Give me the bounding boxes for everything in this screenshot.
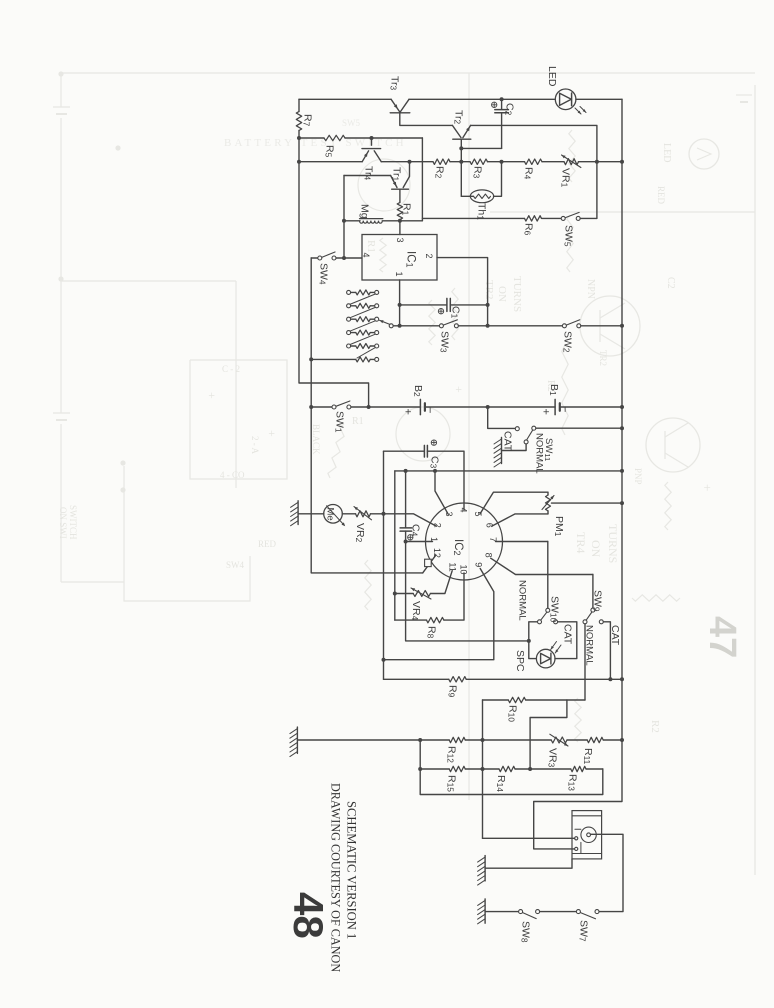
resistor ladder 4	[356, 330, 370, 335]
wire main row seg5	[542, 161, 564, 163]
arrow VR1	[562, 155, 581, 168]
svg-text:B1: B1	[548, 384, 560, 396]
svg-text:7: 7	[488, 537, 498, 542]
resistor R1	[397, 203, 402, 220]
wire ladder row6 feed	[311, 358, 356, 360]
wire R6 row b	[542, 217, 562, 219]
ground R12 row	[296, 727, 298, 753]
wire SW1 row a	[311, 406, 332, 408]
junction row470/x405	[404, 469, 408, 473]
arrow selector wiper	[380, 320, 390, 324]
wire SW8 row a	[485, 911, 518, 913]
svg-text:NORMAL: NORMAL	[584, 625, 595, 666]
switch SW1	[332, 405, 336, 409]
junction row470/pin3	[433, 469, 437, 473]
capacitor C1	[446, 298, 448, 311]
wire SW10 NORMAL to SPC left	[529, 622, 538, 659]
junction left bus / R5	[297, 136, 301, 140]
svg-text:R12: R12	[446, 746, 458, 763]
svg-text:R6: R6	[523, 223, 535, 236]
svg-text:Tr3: Tr3	[389, 76, 401, 91]
svg-text:+: +	[452, 386, 466, 393]
switch SW9 CAT contact	[599, 620, 603, 624]
junction pin2net/SW3 row	[486, 324, 490, 328]
wire SW10 CAT to SPC right	[555, 622, 577, 659]
svg-text:ON: ON	[496, 286, 508, 302]
switch SW10 pole	[546, 608, 550, 612]
wire ground to Me	[298, 513, 324, 515]
wire ladder row 3 a	[351, 318, 356, 320]
wire B1 to bus	[560, 406, 622, 408]
wire IC2 pin2	[384, 514, 437, 526]
polarity mark C1	[438, 309, 443, 314]
svg-text:R11: R11	[582, 748, 594, 765]
ladder contact right 6	[375, 357, 379, 361]
wire IC1 pin1 vertical	[399, 280, 401, 326]
resistor R14	[499, 766, 515, 771]
switch SW9 NORMAL contact	[583, 620, 587, 624]
wire R15 row a	[420, 768, 449, 770]
wire Tr2emitter to SW5 branch	[471, 125, 597, 218]
transistor Tr2	[452, 125, 461, 137]
junction bus/battery row	[620, 405, 624, 409]
svg-text:12: 12	[432, 548, 442, 558]
svg-text:R15: R15	[446, 775, 458, 792]
svg-text:1: 1	[429, 537, 439, 542]
junction left-bus drop	[367, 405, 371, 409]
resistor VR4	[413, 591, 430, 597]
wire x405 vertical b	[406, 531, 529, 641]
ladder contact right 3	[375, 317, 379, 321]
resistor R15	[449, 766, 465, 771]
svg-text:TURNS: TURNS	[511, 276, 523, 312]
wire IC2 pin12	[423, 555, 436, 573]
wire IC2 pin9	[384, 569, 494, 660]
wire B2-B1	[425, 406, 555, 408]
svg-text:R8: R8	[426, 626, 438, 639]
wire x482 vertical	[482, 700, 484, 838]
junction row/Th1	[500, 160, 504, 164]
svg-text:SW7: SW7	[578, 920, 590, 942]
switch SW11 NORMAL contact	[532, 426, 536, 430]
wire SW11 NORMAL to bus	[536, 427, 622, 429]
wire R10 dogleg	[530, 700, 567, 769]
ladder contact right 4	[375, 331, 379, 335]
wire ladder row 3 b	[370, 318, 374, 320]
wire PM1 wiper to bus	[552, 502, 623, 504]
switch SW5	[561, 216, 565, 220]
junction Tr4 emitter node	[370, 136, 374, 140]
junction R14/dogleg	[528, 767, 532, 771]
wire Tr2 base vertical	[460, 139, 462, 196]
wire Me to VR2	[342, 513, 355, 515]
svg-text:TR4: TR4	[574, 532, 588, 553]
svg-text:ON: ON	[589, 540, 603, 558]
resistor ladder 3	[356, 317, 370, 322]
ground magnet	[484, 856, 486, 881]
wire magnet pin1 feed	[483, 837, 575, 839]
svg-text:4 - CO: 4 - CO	[220, 470, 245, 480]
svg-text:4: 4	[459, 508, 469, 513]
svg-text:IC1: IC1	[404, 251, 416, 268]
wire ladder link 2	[350, 307, 376, 317]
svg-text:PNP: PNP	[633, 468, 643, 485]
wire SW11 CAT branch	[488, 407, 516, 428]
wire x420 vertical	[420, 740, 603, 795]
svg-text:R13: R13	[567, 774, 579, 791]
wire pin7 to SW10 pole	[547, 542, 549, 609]
wire wiper to row	[393, 325, 399, 327]
svg-text:VR2: VR2	[354, 523, 366, 543]
junction bus/row470	[620, 469, 624, 473]
wire R9 row a	[384, 678, 449, 680]
svg-text:−: −	[424, 407, 436, 413]
svg-text:PM1: PM1	[553, 516, 565, 537]
wire ground to box	[485, 859, 572, 868]
svg-text:SPC: SPC	[514, 650, 526, 672]
ground SW8	[484, 899, 486, 923]
svg-text:DRAWING COURTESY OF CANON: DRAWING COURTESY OF CANON	[329, 783, 343, 972]
wire ladder link 1	[350, 294, 376, 304]
junction x482/R12 row	[481, 738, 485, 742]
junction row/Tr1 collector	[408, 160, 412, 164]
svg-text:TURNS: TURNS	[606, 524, 620, 563]
wire SW3-SW2	[458, 325, 562, 327]
svg-text:C - 2: C - 2	[222, 364, 240, 374]
wire R12 row a	[297, 739, 449, 741]
ladder contact left 1	[347, 290, 351, 294]
svg-text:+: +	[265, 430, 279, 437]
junction left bus / main row	[297, 160, 301, 164]
wire SW1 row b	[351, 406, 420, 408]
wire x394 vertical	[394, 471, 396, 620]
ladder contact right 1	[375, 290, 379, 294]
ladder contact right 2	[375, 304, 379, 308]
svg-text:NORMAL: NORMAL	[534, 433, 545, 474]
svg-text:R10: R10	[507, 705, 519, 722]
svg-text:BLACK: BLACK	[311, 424, 321, 455]
wire x383 vertical	[383, 451, 385, 679]
wire ladder row 2 b	[370, 305, 374, 307]
wire R10 row b	[526, 699, 585, 701]
svg-text:3: 3	[395, 238, 405, 243]
resistor ladder 2	[356, 303, 370, 308]
svg-text:LED: LED	[546, 66, 558, 87]
svg-text:BATTERY TEST SWITCH: BATTERY TEST SWITCH	[224, 137, 407, 149]
wire main bus right	[534, 99, 622, 849]
junction SW4/Mg branch	[342, 256, 346, 260]
svg-text:C3: C3	[429, 456, 441, 469]
wire top bus middle	[409, 98, 555, 100]
junction R9/SW9cat	[608, 677, 612, 681]
wire IC2 pin5	[480, 492, 548, 514]
svg-text:R1: R1	[365, 240, 377, 253]
wire SW8-SW7	[540, 911, 577, 913]
resistor R4	[525, 159, 543, 164]
svg-text:48: 48	[285, 892, 332, 939]
wire ladder row 6 b	[370, 358, 374, 360]
svg-text:SW5: SW5	[342, 118, 361, 128]
wire magnet right pin	[591, 834, 624, 911]
wire R1 to IC1 pin3	[399, 221, 401, 235]
battery B2	[419, 399, 421, 414]
switch SW11 pole contact	[524, 440, 528, 444]
junction x383/meter row	[382, 512, 386, 516]
ladder contact left 5	[347, 344, 351, 348]
magnet pin 1	[575, 837, 578, 840]
wire IC2 pin7	[496, 541, 548, 543]
wire R11 to bus	[603, 739, 622, 741]
switch SW8	[519, 910, 523, 914]
svg-text:LED: LED	[661, 143, 672, 162]
wire Tr1 base	[399, 189, 401, 202]
wire IC2 pin3	[435, 471, 448, 514]
junction x394/VR4	[393, 592, 397, 596]
wire x422 vertical	[421, 138, 423, 221]
release magnet box	[572, 811, 602, 859]
svg-text:IC2: IC2	[452, 539, 464, 556]
wire SW4 row b	[336, 257, 362, 259]
svg-text:TR2: TR2	[483, 280, 495, 300]
arrow PM1	[542, 496, 554, 510]
junction bus/SW2 row	[620, 324, 624, 328]
junction R1/Mg node	[398, 219, 402, 223]
wire SW9 CAT drop	[603, 622, 610, 680]
wire IC2 pin4	[463, 503, 465, 510]
switch SW10 lever	[541, 612, 547, 620]
wire R13 to corner	[586, 768, 603, 770]
switch SW10 CAT contact	[554, 620, 558, 624]
ground meter	[297, 501, 299, 525]
junction top bus / C2	[500, 97, 504, 101]
wire IC2 pin10	[444, 573, 464, 620]
svg-text:−: −	[559, 406, 571, 412]
svg-text:SW2: SW2	[562, 331, 574, 353]
wire main row seg1	[299, 161, 362, 163]
wire IC1 pin2 net	[437, 258, 488, 305]
svg-text:2: 2	[424, 254, 434, 259]
meter Me	[324, 505, 343, 524]
svg-text:C1: C1	[450, 306, 462, 319]
svg-text:RED: RED	[258, 539, 277, 549]
switch SW10 NORMAL contact	[538, 620, 542, 624]
junction pin1/C1 row	[398, 303, 402, 307]
resistor VR3	[551, 737, 567, 743]
junction x311/SW1 row	[309, 405, 313, 409]
switch SW2	[562, 324, 566, 328]
wire x344 vertical	[343, 176, 345, 259]
svg-text:C2: C2	[504, 103, 516, 116]
wire main row seg2	[381, 161, 433, 163]
wire R12 row b	[465, 739, 551, 741]
svg-text:Tr4: Tr4	[363, 166, 375, 181]
polarity mark C3	[431, 440, 436, 445]
junction bus/R9 row	[620, 677, 624, 681]
svg-text:Me: Me	[325, 508, 336, 521]
wire IC2 pin11	[430, 571, 452, 594]
svg-text:R5: R5	[324, 145, 336, 158]
svg-text:5: 5	[473, 512, 483, 517]
svg-text:VR3: VR3	[547, 748, 559, 768]
svg-text:R4: R4	[523, 167, 535, 180]
svg-text:SWITCH: SWITCH	[68, 505, 78, 540]
resistor R6	[525, 216, 542, 221]
resistor R3	[470, 159, 488, 164]
switch SW9 pole	[591, 608, 595, 612]
junction bus/R12 row	[620, 738, 624, 742]
svg-text:NPN: NPN	[585, 279, 596, 299]
svg-text:R2: R2	[434, 166, 446, 179]
wire R8 row	[395, 619, 427, 621]
junction SW11 branch	[486, 405, 490, 409]
junction x420/R12 row	[418, 738, 422, 742]
svg-text:R14: R14	[495, 775, 507, 792]
svg-text:2: 2	[433, 523, 443, 528]
wire R5 row a	[299, 137, 324, 139]
junction x420/R15 row	[418, 767, 422, 771]
wire R6 row a	[422, 217, 524, 219]
capacitor C4	[400, 527, 412, 529]
svg-text:SW5: SW5	[563, 225, 575, 247]
svg-text:3: 3	[444, 512, 454, 517]
wire pin8 to SW9 pole	[592, 575, 594, 609]
wire Mg row left	[344, 220, 360, 222]
wire left bus lower	[299, 131, 369, 408]
resistor PM1	[546, 495, 551, 511]
svg-text:NORMAL: NORMAL	[517, 580, 528, 621]
thermistor Th1	[470, 190, 493, 203]
wire x405 vertical a	[405, 471, 407, 527]
resistor R11	[587, 737, 603, 742]
junction pin2net/C1	[486, 303, 490, 307]
IC IC1 box	[362, 235, 437, 281]
svg-text:B2: B2	[412, 385, 424, 397]
resistor R7	[296, 112, 301, 131]
polarity mark C4	[408, 535, 413, 540]
wire ladder link 5	[357, 348, 375, 358]
wire VR3-R11	[567, 739, 587, 741]
svg-text:VR1: VR1	[560, 168, 572, 188]
wire top bus left	[299, 98, 391, 100]
wire main row seg3	[450, 161, 470, 163]
svg-text:+: +	[205, 392, 219, 399]
ladder contact left 3	[347, 317, 351, 321]
wire SW5 to corner	[580, 217, 597, 219]
transistor Tr1	[391, 176, 397, 188]
svg-text:Th1: Th1	[476, 203, 488, 220]
photocell SPC	[536, 649, 555, 668]
resistor R8	[427, 617, 444, 622]
svg-text:SW3: SW3	[439, 331, 451, 353]
resistor R10	[508, 697, 525, 702]
resistor ladder 5	[356, 344, 370, 349]
wire IC2 pin8	[491, 558, 593, 574]
svg-text:+: +	[540, 409, 552, 415]
svg-text:R7: R7	[302, 114, 314, 127]
switch SW7	[576, 910, 580, 914]
wire IC2 top row	[395, 470, 622, 472]
IC IC2 circle	[426, 503, 503, 580]
wire PM1 bottom stub	[547, 511, 549, 514]
wire ladder row 5 b	[370, 345, 374, 347]
svg-text:C2: C2	[665, 277, 676, 289]
switch SW4	[318, 256, 322, 260]
wire SW4 row a	[311, 257, 318, 259]
svg-text:+: +	[700, 484, 715, 491]
arrow VR4	[411, 588, 431, 599]
svg-text:1: 1	[394, 272, 404, 277]
svg-text:C4: C4	[410, 524, 422, 537]
transistor Tr4	[371, 138, 373, 145]
svg-text:R1: R1	[352, 416, 364, 427]
wire C2 stub bottom	[501, 113, 503, 148]
wire R5 row b	[345, 137, 422, 139]
svg-text:+: +	[402, 409, 414, 415]
wire IC2 pin1	[406, 541, 433, 543]
arrow VR3	[550, 734, 568, 746]
wire main row seg6	[579, 161, 623, 163]
capacitor C3	[423, 445, 425, 457]
junction row/main bus	[620, 160, 624, 164]
svg-text:R1: R1	[401, 203, 413, 216]
resistor R13	[571, 766, 586, 771]
junction row/Tr2	[459, 160, 463, 164]
junction wiper row	[398, 324, 402, 328]
ladder contact left 2	[347, 304, 351, 308]
svg-text:SW4: SW4	[226, 560, 245, 570]
svg-text:SW10: SW10	[549, 596, 561, 623]
junction x405/pin1	[404, 540, 408, 544]
resistor ladder 6	[356, 357, 370, 362]
junction y641/SPC branch	[527, 639, 531, 643]
junction bus/SW11 row	[620, 426, 624, 430]
wire Mg row right	[382, 220, 422, 222]
resistor R2	[433, 159, 450, 164]
svg-text:SW11: SW11	[543, 438, 554, 461]
svg-text:SCHEMATIC VERSION 1: SCHEMATIC VERSION 1	[345, 801, 359, 939]
svg-text:6: 6	[484, 523, 494, 528]
wire ladder row 4 a	[351, 332, 356, 334]
wire ladder row 5 a	[351, 345, 356, 347]
polarity mark C2	[492, 102, 497, 107]
wire R9 row b	[466, 678, 622, 680]
wire ladder link 3	[350, 321, 376, 331]
svg-text:VR4: VR4	[410, 601, 422, 621]
svg-text:4: 4	[361, 253, 371, 258]
battery B1	[554, 399, 556, 414]
magnet coil Mg	[360, 221, 364, 223]
wire C3 row right	[427, 451, 464, 503]
resistor R12	[449, 737, 465, 742]
ladder contact right 5	[375, 344, 379, 348]
wire SW11 pole to ground	[502, 444, 527, 451]
resistor R9	[449, 677, 466, 682]
svg-text:CAT: CAT	[609, 625, 621, 646]
wire main row seg4	[488, 161, 525, 163]
wire ladder row 1 b	[370, 291, 374, 293]
svg-text:9: 9	[474, 562, 484, 567]
svg-text:Tr1: Tr1	[391, 167, 403, 182]
IC2 pin12 link component	[425, 559, 432, 566]
wire ladder row 1 a	[351, 291, 356, 293]
wire left bus upper	[298, 99, 300, 111]
wire Th1 left	[461, 195, 473, 197]
wire ladder row 4 b	[370, 332, 374, 334]
wire C1 row a	[400, 304, 447, 306]
svg-text:SW8: SW8	[520, 921, 532, 943]
svg-text:RED: RED	[656, 186, 666, 205]
svg-text:SW1: SW1	[334, 411, 346, 433]
